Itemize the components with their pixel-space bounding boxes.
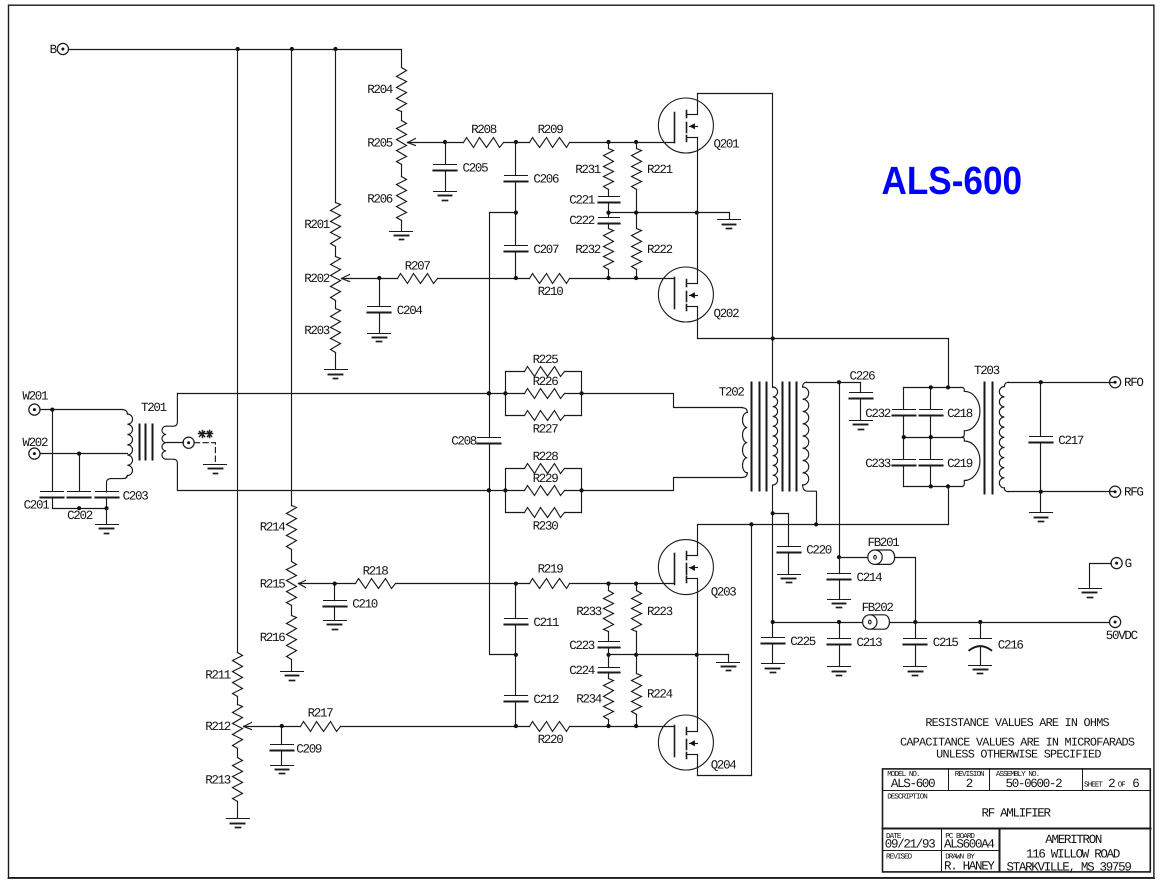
wire middle winding down <box>772 486 774 623</box>
wire C204-gnd <box>379 313 381 334</box>
wire R202-R203 <box>335 301 337 309</box>
wire R221 lead <box>636 143 638 149</box>
wire R231-C221 <box>608 190 610 197</box>
junction R233 top <box>606 582 610 586</box>
junction box bottom mid <box>929 484 933 488</box>
svg-text:T202: T202 <box>719 386 745 400</box>
wire C214 column <box>839 383 841 574</box>
junction on B bus x=335.5 <box>333 47 337 51</box>
svg-text:R210: R210 <box>538 285 564 299</box>
resistor R206 <box>367 177 406 221</box>
resistor R208 <box>464 123 504 148</box>
svg-text:R234: R234 <box>576 693 602 707</box>
svg-text:OF: OF <box>1118 780 1127 789</box>
svg-text:R225: R225 <box>533 353 559 367</box>
svg-text:C214: C214 <box>857 571 883 585</box>
wire mid row to ground stub <box>609 212 730 214</box>
svg-text:50VDC: 50VDC <box>1106 629 1138 643</box>
wire box top rail <box>904 387 963 389</box>
terminal RFG <box>1110 486 1144 500</box>
wire R215-R216 <box>291 606 293 616</box>
wire R203-gnd <box>335 353 337 370</box>
junction C202 bottom <box>77 506 81 510</box>
resistor R226 <box>506 375 582 398</box>
transformer T202 middle winding <box>772 339 774 388</box>
transformer T201 core <box>139 425 141 460</box>
svg-text:R229: R229 <box>533 472 559 486</box>
wire W202 to T201 tap <box>41 453 128 455</box>
svg-text:R213: R213 <box>205 774 231 788</box>
wire dashed tap to ground <box>194 443 215 462</box>
capacitor C219 <box>920 457 973 471</box>
capacitor C222 <box>569 214 619 228</box>
wire Q201 source to Q202 drain <box>697 138 699 284</box>
capacitor C204 <box>368 304 423 318</box>
wire R228 group left post <box>505 469 507 513</box>
capacitor C202 <box>67 492 93 524</box>
ground under C210 <box>324 620 347 622</box>
transformer T202 primary winding <box>743 408 748 413</box>
wire R206-gnd <box>401 221 403 232</box>
capacitor C215 <box>904 636 959 650</box>
svg-text:Q203: Q203 <box>711 586 737 600</box>
wire R204 lead <box>401 50 403 68</box>
transformer T203 core <box>984 383 986 494</box>
junction R224 bottom <box>634 724 638 728</box>
svg-text:W201: W201 <box>22 389 48 403</box>
resistor R228 <box>506 450 582 473</box>
svg-text:6: 6 <box>1132 777 1139 791</box>
svg-text:R217: R217 <box>308 707 334 721</box>
capacitor C201 <box>24 492 64 513</box>
resistor R211 <box>205 653 242 697</box>
wire R234 to gate row 4 <box>608 720 610 727</box>
svg-text:B: B <box>50 43 58 57</box>
svg-text:R230: R230 <box>533 520 559 534</box>
ground under R203 <box>325 369 348 371</box>
resistor R217 <box>301 707 341 732</box>
junction C208 rail2 <box>487 488 491 492</box>
svg-text:T203: T203 <box>974 364 1000 378</box>
svg-text:Q201: Q201 <box>714 138 740 152</box>
wire box left column mid <box>903 416 905 460</box>
svg-text:AMERITRON: AMERITRON <box>1045 833 1102 847</box>
svg-text:C203: C203 <box>123 489 149 503</box>
wire C226 lead <box>860 383 862 393</box>
ground under C226 <box>850 420 873 422</box>
capacitor C212 <box>505 693 560 707</box>
wire Q202 source down <box>697 307 699 339</box>
capacitor C205 <box>434 161 489 175</box>
svg-text:C233: C233 <box>865 457 891 471</box>
wire C208 column lower <box>490 444 516 655</box>
svg-text:G: G <box>1125 557 1132 571</box>
svg-text:R203: R203 <box>304 324 330 338</box>
wire mid row 3 <box>609 654 729 656</box>
svg-text:C204: C204 <box>397 304 423 318</box>
capacitor C210 <box>324 597 378 611</box>
svg-text:ALS-600: ALS-600 <box>891 777 935 791</box>
wire FB201 out <box>895 558 916 623</box>
ground mid stub <box>718 219 741 221</box>
wire C205 lead <box>445 143 447 165</box>
junction C215 tap <box>913 620 917 624</box>
transformer T203 winding <box>1004 382 1008 386</box>
capacitor C224 <box>569 664 619 678</box>
junction C211 top <box>514 582 518 586</box>
wire R225 group left post <box>505 372 507 416</box>
potentiometer R205 <box>367 121 415 165</box>
wire C214-gnd <box>839 580 841 600</box>
wire R233-C223 <box>608 632 610 642</box>
wire R232 to gate row 2 <box>608 270 610 279</box>
junction R222 bottom <box>634 276 638 280</box>
wire C201 lead <box>52 410 54 492</box>
wire R214-R215 <box>291 550 293 562</box>
wire bottom bus 1 <box>698 338 949 340</box>
wire ground stub lead <box>729 213 731 220</box>
svg-text:2: 2 <box>966 777 973 791</box>
wire T202 top rail <box>807 382 861 384</box>
wire box bottom rail <box>904 486 963 488</box>
wire C208 column upper <box>489 213 491 438</box>
wire C209 lead <box>281 727 283 745</box>
wire R223 lead <box>636 584 638 591</box>
capacitor C214 <box>828 571 883 585</box>
wire C210-gnd <box>334 607 336 621</box>
svg-text:R. HANEY: R. HANEY <box>944 859 995 873</box>
wire C205-gnd <box>445 171 447 192</box>
resistor R233 <box>576 591 613 632</box>
wire rail1 left <box>178 393 506 395</box>
capacitor C233 <box>865 457 915 471</box>
junction R221 top <box>634 140 638 144</box>
wire C210 lead <box>334 584 336 601</box>
wire rail1 step to T202 <box>582 394 743 408</box>
wire Q204 source down <box>697 755 699 776</box>
svg-text:C226: C226 <box>850 370 876 384</box>
capacitor C217 <box>1030 434 1084 448</box>
wire R209 to Q201 gate <box>570 142 675 144</box>
wire C220-gnd <box>788 553 790 575</box>
capacitor C221 <box>569 193 619 207</box>
svg-text:R216: R216 <box>260 631 286 645</box>
svg-text:50-0600-2: 50-0600-2 <box>1006 777 1063 791</box>
svg-text:DESCRIPTION: DESCRIPTION <box>887 793 927 802</box>
ground under R213 <box>227 818 250 820</box>
wire B bus <box>69 49 402 51</box>
resistor R222 <box>632 229 673 270</box>
resistor R221 <box>632 149 673 190</box>
svg-text:W202: W202 <box>22 436 48 450</box>
svg-text:SHEET: SHEET <box>1084 780 1103 789</box>
resistor R218 <box>356 564 396 588</box>
wire box left column lower <box>903 466 905 487</box>
junction C220 tee <box>771 511 775 515</box>
svg-text:C201: C201 <box>24 498 50 512</box>
wire C221-C222 <box>608 203 610 218</box>
resistor R220 <box>530 722 570 748</box>
svg-text:REVISED: REVISED <box>886 853 913 862</box>
capacitor C209 <box>271 742 322 756</box>
potentiometer R202 <box>304 257 349 301</box>
wire box mid rail <box>904 437 963 439</box>
svg-text:C225: C225 <box>790 635 816 649</box>
junction C225 tap <box>771 620 775 624</box>
wire R221-R222 <box>636 190 638 229</box>
terminal G <box>1111 557 1132 571</box>
resistor R232 <box>575 229 613 270</box>
svg-text:C216: C216 <box>998 639 1024 653</box>
ground under C209 <box>271 765 294 767</box>
transistor Q202 <box>658 267 739 322</box>
svg-text:C211: C211 <box>533 616 559 630</box>
capacitor C220 <box>778 544 832 558</box>
resistor R209 <box>530 123 570 148</box>
junction lower source bus <box>695 653 699 657</box>
wire supply row right <box>890 622 1110 624</box>
wire Q201 drain up <box>697 94 699 115</box>
svg-text:R209: R209 <box>538 123 564 137</box>
terminal B <box>50 43 69 57</box>
potentiometer R215 <box>260 562 306 606</box>
svg-text:R232: R232 <box>575 243 601 257</box>
junction box mid left <box>902 435 906 439</box>
transformer T202 core left <box>751 383 753 491</box>
svg-text:R201: R201 <box>304 218 330 232</box>
junction C223-C224 node <box>606 653 610 657</box>
wire R233 lead <box>608 584 610 591</box>
junction C201 tap <box>50 408 54 412</box>
junction R221-R222 node <box>634 211 638 215</box>
junction C214 column top <box>837 380 841 384</box>
svg-text:R214: R214 <box>260 521 286 535</box>
wire R219 to Q203 gate <box>570 583 675 585</box>
junction box mid mid <box>929 435 933 439</box>
svg-text:R224: R224 <box>647 688 673 702</box>
svg-text:R212: R212 <box>205 720 231 734</box>
wire Q203 source to Q204 drain <box>697 579 699 732</box>
wire R205 wiper to R208 <box>408 142 464 144</box>
wire R228 group right post <box>581 469 583 513</box>
svg-text:R223: R223 <box>647 605 673 619</box>
wire x=335.5 down to R201 <box>335 50 337 203</box>
ground under G <box>1079 588 1102 590</box>
svg-text:R220: R220 <box>538 733 564 747</box>
wire R215 wiper to R218 <box>299 583 356 585</box>
wire R213-gnd <box>237 802 239 819</box>
junction box bottom right <box>946 484 950 488</box>
ground under C220 <box>778 574 801 576</box>
capacitor C207 <box>505 243 560 257</box>
wire R225 group right post <box>581 372 583 416</box>
wire R210 to Q202 gate <box>570 278 675 280</box>
svg-text:C206: C206 <box>533 172 559 186</box>
wire RFO rail <box>1009 382 1114 384</box>
ground under C205 <box>434 191 457 193</box>
terminal T201 center tap <box>183 437 194 448</box>
ferrite bead FB201 <box>868 536 900 564</box>
svg-text:C202: C202 <box>67 509 93 523</box>
svg-text:FB201: FB201 <box>868 536 900 550</box>
svg-text:R211: R211 <box>205 669 231 683</box>
wire R223-R224 <box>636 632 638 674</box>
svg-text:C218: C218 <box>947 407 973 421</box>
resistor R216 <box>260 616 297 660</box>
ground under RFG rail <box>1030 512 1053 514</box>
junction C208 to C211 column <box>514 653 518 657</box>
svg-text:R206: R206 <box>367 193 393 207</box>
svg-text:R204: R204 <box>367 83 393 97</box>
transformer T201 secondary winding <box>166 393 177 426</box>
wire C209-gnd <box>281 751 283 766</box>
svg-text:R202: R202 <box>304 272 330 286</box>
svg-text:R222: R222 <box>647 243 673 257</box>
junction C217 top <box>1039 380 1043 384</box>
junction C206 column tap <box>514 140 518 144</box>
resistor R213 <box>205 758 242 802</box>
junction C210 tap <box>333 582 337 586</box>
title block <box>883 769 1151 875</box>
svg-text:09/21/93: 09/21/93 <box>885 838 935 852</box>
junction R232 bottom <box>606 276 610 280</box>
coupling loop lower <box>962 437 980 486</box>
junction on B bus x=237.7 <box>236 47 240 51</box>
resistor R207 <box>398 260 438 284</box>
wire supply row left <box>773 622 863 624</box>
resistor R214 <box>260 506 297 550</box>
wire W201 to T201 <box>41 409 123 411</box>
wire R202 wiper to R207 <box>342 278 398 280</box>
svg-text:ALS-600: ALS-600 <box>882 159 1023 203</box>
resistor R229 <box>506 472 582 495</box>
resistor R210 <box>530 274 570 300</box>
capacitor C218 <box>920 407 973 421</box>
wire C224-R234 <box>608 673 610 679</box>
junction rail2 C208 <box>487 488 491 492</box>
svg-text:R208: R208 <box>471 123 497 137</box>
resistor R230 <box>506 508 582 534</box>
wire C207 to gate row 2 <box>515 252 517 279</box>
resistor R219 <box>530 563 570 589</box>
wire C213 lead <box>839 623 841 639</box>
junction C217 bottom <box>1039 490 1043 494</box>
svg-text:C224: C224 <box>569 664 595 678</box>
junction C212 bottom <box>514 724 518 728</box>
wire box left column upper <box>903 388 905 410</box>
wire R220 to Q204 gate <box>570 726 675 728</box>
svg-text:C213: C213 <box>857 636 883 650</box>
svg-text:C232: C232 <box>865 407 891 421</box>
svg-text:RESISTANCE VALUES ARE IN OHMS: RESISTANCE VALUES ARE IN OHMS <box>925 716 1109 730</box>
ground under C204 <box>368 333 391 335</box>
wire C211 lead <box>515 584 517 619</box>
junction rail1 group left <box>503 391 507 395</box>
potentiometer R212 <box>205 705 251 749</box>
wire C217 lead <box>1040 383 1042 437</box>
wire C203-gnd <box>106 498 108 525</box>
wire cap bottom bus <box>53 498 107 509</box>
svg-text:T201: T201 <box>141 401 167 415</box>
svg-text:C217: C217 <box>1058 434 1084 448</box>
capacitor C208 <box>451 435 500 449</box>
svg-text:C219: C219 <box>947 457 973 471</box>
svg-text:C207: C207 <box>533 243 559 257</box>
coupling loop upper <box>962 387 980 437</box>
svg-text:STARKVILLE, MS 39759: STARKVILLE, MS 39759 <box>1007 861 1132 875</box>
svg-text:C220: C220 <box>806 544 832 558</box>
svg-text:R233: R233 <box>576 605 602 619</box>
junction C208 rail1 <box>487 391 491 395</box>
transistor Q203 <box>658 540 736 600</box>
junction R231 top <box>606 140 610 144</box>
wire drain top bus <box>698 93 773 95</box>
capacitor C232 <box>865 407 915 421</box>
svg-text:Q202: Q202 <box>714 307 740 321</box>
junction R234 bottom <box>606 724 610 728</box>
wire to C206 <box>515 143 517 176</box>
svg-text:C209: C209 <box>296 742 322 756</box>
capacitor C226 <box>850 370 876 399</box>
svg-text:116 WILLOW ROAD: 116 WILLOW ROAD <box>1026 847 1120 861</box>
ground under C216 <box>969 665 992 667</box>
svg-text:2: 2 <box>1108 777 1115 791</box>
wire R224 to gate row 4 <box>636 715 638 727</box>
junction C213 tap <box>837 620 841 624</box>
svg-text:R228: R228 <box>533 450 559 464</box>
resistor R225 <box>506 353 582 376</box>
junction C203 bottom <box>104 506 108 510</box>
svg-text:R218: R218 <box>363 564 389 578</box>
wire C204 lead <box>379 279 381 307</box>
terminal RFO <box>1110 376 1144 390</box>
terminal W201 <box>22 389 48 415</box>
terminal W202 <box>22 436 48 459</box>
wire right winding to bus <box>816 492 818 525</box>
junction rail1 C208 <box>487 391 491 395</box>
resistor R224 <box>632 674 673 715</box>
transformer T202 core right <box>782 383 784 491</box>
wire C225-gnd <box>772 644 774 664</box>
wire RFG rail <box>1009 491 1114 493</box>
junction source bus node <box>695 211 699 215</box>
ferrite bead FB202 <box>862 601 894 629</box>
junction box top mid <box>929 385 933 389</box>
wire box mid column lower <box>930 466 932 487</box>
resistor R227 <box>506 411 582 437</box>
junction C205 tap <box>443 140 447 144</box>
svg-text:RFG: RFG <box>1124 486 1143 500</box>
wire R218-R219 <box>396 583 530 585</box>
junction rail2 group right <box>580 488 584 492</box>
wire R201-R202 <box>335 247 337 257</box>
svg-text:C210: C210 <box>352 597 378 611</box>
wire to FB201 <box>840 557 868 559</box>
svg-text:C222: C222 <box>569 214 595 228</box>
capacitor C203 <box>96 489 149 503</box>
wire Q203 drain up <box>697 525 699 556</box>
svg-text:C215: C215 <box>933 636 959 650</box>
wire C225 lead <box>772 623 774 638</box>
svg-text:UNLESS OTHERWISE SPECIFIED: UNLESS OTHERWISE SPECIFIED <box>936 747 1101 761</box>
capacitor C206 <box>505 172 560 186</box>
wire R208-R209 <box>504 142 530 144</box>
wire bus riser to box <box>948 339 950 388</box>
junction rail2 group left <box>503 488 507 492</box>
wire rail2 left <box>178 490 506 492</box>
wire R212 wiper to R217 <box>244 726 301 728</box>
wire C206-C207 <box>515 182 517 246</box>
